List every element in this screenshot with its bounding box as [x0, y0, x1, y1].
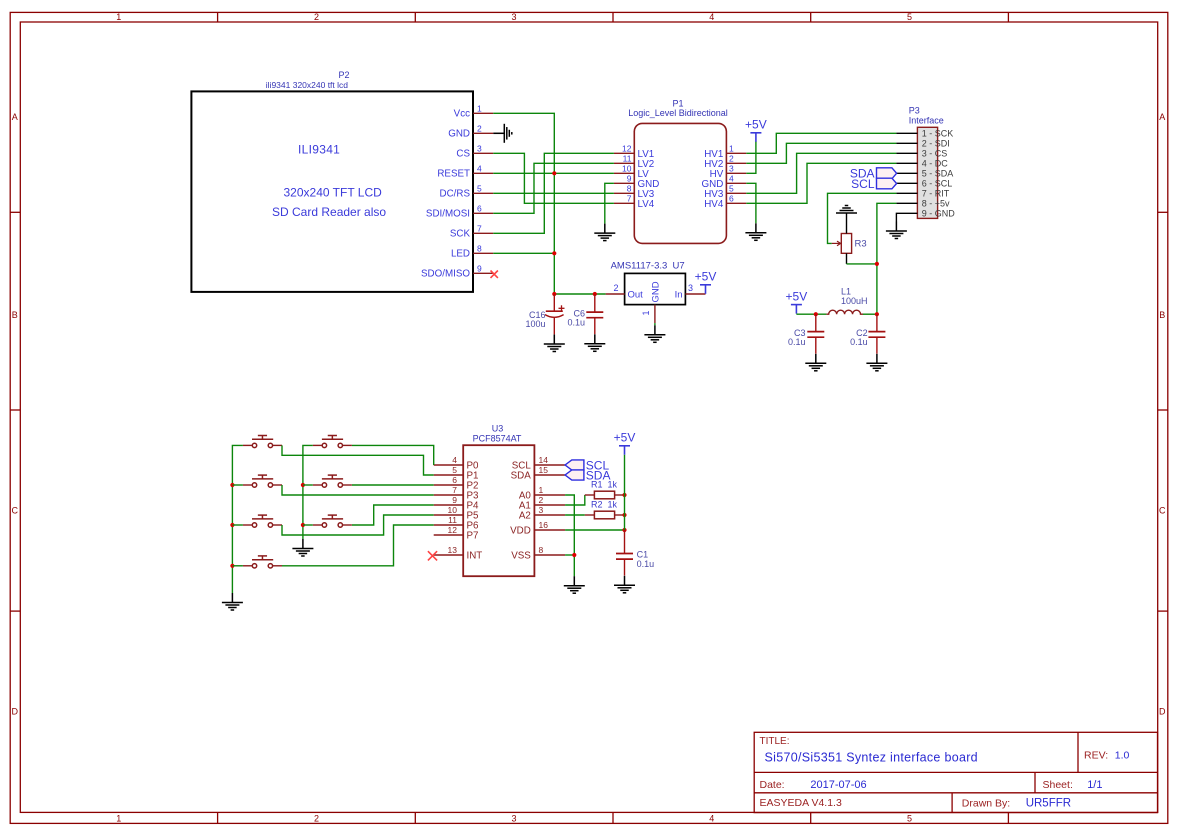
svg-text:INT: INT — [467, 551, 483, 562]
svg-text:0.1u: 0.1u — [637, 559, 655, 569]
svg-text:3: 3 — [729, 164, 734, 174]
pin 7 P3 of U3 — [434, 485, 479, 502]
svg-text:5: 5 — [729, 184, 734, 194]
junction at C6 — [593, 292, 597, 296]
svg-text:Logic_Level Bidirectional: Logic_Level Bidirectional — [628, 108, 728, 118]
svg-text:SCK: SCK — [450, 229, 471, 240]
pin 3 CS of P2 — [456, 144, 493, 160]
wire second button rail to ground — [303, 445, 313, 539]
svg-text:VDD: VDD — [510, 526, 531, 537]
ground below C6 — [584, 334, 605, 351]
wire R3 top lead — [846, 213, 848, 234]
trimmer resistor R3 — [832, 234, 852, 254]
svg-text:DC/RS: DC/RS — [440, 189, 471, 200]
svg-text:2: 2 — [314, 12, 319, 22]
wire 3.3V node to U7 Out — [554, 293, 605, 295]
svg-text:13: 13 — [448, 545, 458, 555]
ground below VSS — [564, 576, 585, 593]
push button SW2 — [313, 436, 352, 448]
svg-text:7: 7 — [452, 485, 457, 495]
svg-text:10: 10 — [448, 505, 458, 515]
svg-text:14: 14 — [539, 455, 549, 465]
label REV: — [1084, 750, 1130, 762]
svg-text:3: 3 — [477, 144, 482, 154]
wire rail2 to SW6 — [303, 524, 313, 526]
svg-text:D: D — [12, 707, 19, 717]
svg-text:1: 1 — [116, 814, 121, 824]
svg-text:C: C — [1159, 506, 1166, 516]
pin 10 P5 of U3 — [434, 505, 479, 522]
junction rail2 row2 — [301, 483, 305, 487]
ground below P1 left GND — [594, 224, 615, 241]
svg-text:U3: U3 — [492, 424, 504, 434]
svg-text:16: 16 — [539, 520, 549, 530]
ground below P1 right GND — [745, 223, 766, 240]
pin 11 P6 of U3 — [434, 515, 479, 532]
svg-text:ILI9341: ILI9341 — [298, 143, 340, 157]
svg-text:4: 4 — [477, 164, 482, 174]
svg-text:P1: P1 — [672, 98, 683, 108]
wire R2 left lead — [585, 514, 595, 516]
pin 9 GND of P1 — [614, 174, 659, 191]
wire rail2 to SW4 — [303, 484, 313, 486]
svg-text:2: 2 — [314, 814, 319, 824]
resistor R2 — [594, 511, 614, 519]
capacitor C2 — [868, 314, 885, 354]
wire HV to +5V — [746, 142, 756, 174]
svg-text:6: 6 — [477, 204, 482, 214]
net flag SDA at P3 — [850, 167, 897, 181]
wire CS to LV4 — [493, 153, 614, 203]
no-connect X on P2 pin 9 SDO/MISO — [491, 271, 498, 278]
wire HV2 to P3 pin2 SDI — [746, 143, 896, 163]
wire RESET to LV — [493, 172, 614, 174]
svg-text:Out: Out — [628, 289, 644, 300]
svg-text:3: 3 — [539, 505, 544, 515]
no-connect X on U3 INT pin — [428, 551, 437, 560]
pin 5 HV3 of P1 — [704, 184, 746, 201]
svg-text:2: 2 — [613, 283, 618, 293]
svg-text:100uH: 100uH — [841, 296, 868, 306]
svg-text:SCL: SCL — [851, 177, 875, 191]
wire HV1 to P3 pin1 SCK — [746, 133, 896, 153]
svg-text:R2 1k: R2 1k — [591, 499, 618, 509]
svg-text:+5V: +5V — [745, 118, 767, 132]
svg-text:9: 9 — [477, 264, 482, 274]
push button SW3 — [243, 475, 282, 487]
svg-text:1: 1 — [729, 144, 734, 154]
svg-text:9: 9 — [627, 174, 632, 184]
svg-text:1: 1 — [116, 12, 121, 22]
pin 1 GND of U7 — [641, 305, 655, 324]
svg-text:Drawn By:: Drawn By: — [962, 798, 1010, 810]
ground at P2 GND pin — [493, 124, 512, 143]
svg-text:EASYEDA V4.1.3: EASYEDA V4.1.3 — [760, 797, 842, 809]
pin 7 LV4 of P1 — [614, 194, 655, 211]
junction R2 to +5V rail — [622, 513, 626, 517]
svg-text:Vcc: Vcc — [454, 109, 470, 120]
wire SW6 to P4 pin — [352, 505, 434, 525]
wire L1 to +5v net — [863, 313, 877, 315]
wire A1 to R1 — [565, 495, 585, 505]
wire R1 left lead — [585, 494, 595, 496]
power +5V at P1 HV pin — [750, 133, 761, 142]
svg-text:1.0: 1.0 — [1115, 750, 1130, 762]
svg-text:11: 11 — [448, 515, 457, 525]
svg-text:2: 2 — [539, 495, 544, 505]
net flag SCL at U3 — [565, 458, 609, 472]
pin 7 7 - RIT of P3 — [896, 189, 949, 199]
push button SW5 — [243, 515, 282, 527]
svg-text:1/1: 1/1 — [1087, 779, 1102, 791]
wire VSS to ground rail — [565, 554, 574, 556]
svg-text:UR5FFR: UR5FFR — [1026, 798, 1071, 810]
svg-text:2017-07-06: 2017-07-06 — [810, 779, 866, 791]
svg-text:SDO/MISO: SDO/MISO — [421, 269, 470, 280]
wire P3 +5v pin to L1 node — [877, 203, 897, 314]
svg-text:0.1u: 0.1u — [567, 318, 585, 328]
power +5V above U3 — [619, 446, 630, 455]
wire SW2 to P0 pin — [352, 445, 434, 465]
wire R1 right lead — [615, 494, 624, 496]
svg-text:1: 1 — [641, 310, 651, 315]
wire R3 bottom to +5v net — [847, 263, 877, 265]
junction rail1 row4 — [230, 564, 234, 568]
wire rail1 to SW3 — [232, 484, 243, 486]
ground above R3 — [836, 206, 857, 214]
wire DC/RS to LV3 — [493, 192, 614, 194]
ground below button rail 2 — [292, 539, 313, 556]
pin 11 LV2 of P1 — [614, 154, 654, 171]
connector P3 Interface body — [917, 127, 937, 218]
pin 6 6 - SCL of P3 — [897, 179, 953, 189]
wire A0 to ground rail — [565, 495, 574, 576]
resistor R1 — [594, 491, 614, 499]
svg-text:9 - GND: 9 - GND — [922, 209, 956, 219]
svg-text:+5V: +5V — [614, 431, 636, 445]
junction L1 right node — [875, 312, 879, 316]
svg-text:2: 2 — [477, 124, 482, 134]
pin 5 DC/RS of P2 — [440, 184, 494, 200]
power +5V at L1 input — [791, 305, 802, 314]
pin 5 5 - SDA of P3 — [897, 169, 954, 179]
pin 4 P0 of U3 — [434, 455, 479, 472]
svg-text:100u: 100u — [525, 319, 545, 329]
svg-text:R1 1k: R1 1k — [591, 479, 618, 489]
junction rail2 row3 — [301, 523, 305, 527]
svg-text:A: A — [1159, 112, 1165, 122]
svg-text:6 - SCL: 6 - SCL — [922, 179, 953, 189]
wire SW4 to P2 pin — [352, 484, 434, 486]
wire P1 right GND to ground — [746, 183, 756, 223]
pin 4 GND of P1 — [702, 174, 747, 191]
svg-text:4 - DC: 4 - DC — [922, 159, 949, 169]
svg-text:Interface: Interface — [909, 115, 944, 125]
svg-text:CS: CS — [456, 149, 470, 160]
pin 12 LV1 of P1 — [614, 144, 654, 161]
svg-text:4: 4 — [709, 814, 714, 824]
net flag SDA at U3 — [565, 468, 610, 482]
svg-text:9: 9 — [452, 495, 457, 505]
pin 3 In of U7 — [675, 283, 706, 300]
svg-text:8: 8 — [477, 244, 482, 254]
pin 9 SDO/MISO of P2 — [421, 264, 493, 280]
pin 6 P2 of U3 — [434, 475, 479, 492]
svg-text:5 - SDA: 5 - SDA — [922, 169, 954, 179]
svg-text:PCF8574AT: PCF8574AT — [473, 434, 522, 444]
pin 8 LV3 of P1 — [614, 184, 655, 201]
wire LED to 3.3V rail — [493, 252, 554, 254]
pin 2 HV2 of P1 — [704, 154, 746, 171]
pin 1 A0 of U3 — [519, 485, 565, 502]
wire rail1 to SW5 — [232, 524, 243, 526]
pin 2 Out of U7 — [606, 283, 644, 300]
pin 4 4 - DC of P3 — [896, 159, 948, 169]
wire left button rail to ground — [232, 445, 243, 593]
connector P2 ili9341 LCD body — [191, 91, 473, 292]
svg-text:Sheet:: Sheet: — [1043, 779, 1073, 791]
svg-text:3 - CS: 3 - CS — [922, 149, 948, 159]
svg-text:12: 12 — [448, 525, 458, 535]
junction rail1 row3 — [230, 523, 234, 527]
junction VSS node — [572, 553, 576, 557]
push button SW4 — [313, 475, 352, 487]
pin 16 VDD of U3 — [510, 520, 565, 537]
svg-text:SDI/MOSI: SDI/MOSI — [426, 209, 470, 220]
svg-text:GND: GND — [651, 281, 662, 302]
svg-text:10: 10 — [622, 164, 632, 174]
svg-text:1: 1 — [539, 485, 544, 495]
svg-text:+5V: +5V — [786, 289, 808, 303]
svg-text:LV4: LV4 — [638, 199, 655, 210]
border row labels — [12, 112, 1167, 717]
svg-text:320x240 TFT LCD: 320x240 TFT LCD — [284, 186, 383, 200]
wire SCK to LV1 — [493, 153, 614, 233]
wire HV3 to P3 pin3 CS — [746, 153, 896, 193]
border row ticks left — [10, 212, 1168, 611]
svg-text:LED: LED — [451, 249, 470, 260]
pin 4 RESET of P2 — [437, 164, 493, 180]
svg-text:3: 3 — [688, 283, 693, 293]
push button SW7 — [243, 556, 282, 568]
wire VDD to +5V rail — [565, 529, 624, 531]
title block outline — [754, 732, 1157, 812]
svg-text:2: 2 — [729, 154, 734, 164]
capacitor C1 — [616, 530, 633, 576]
border column ticks top — [218, 12, 1009, 823]
svg-text:1 - SCK: 1 - SCK — [922, 129, 954, 139]
pin 1 Vcc of P2 — [454, 104, 494, 120]
pin 10 LV of P1 — [614, 164, 649, 181]
pin 8 8 - +5v of P3 — [896, 199, 950, 209]
svg-text:0.1u: 0.1u — [788, 337, 806, 347]
svg-text:1: 1 — [477, 104, 482, 114]
wire A2 to R2 — [565, 514, 585, 516]
svg-text:8 - +5v: 8 - +5v — [922, 199, 950, 209]
svg-text:3: 3 — [511, 814, 516, 824]
svg-text:12: 12 — [622, 144, 632, 154]
svg-text:B: B — [12, 310, 18, 320]
inductor L1 100uH — [826, 310, 863, 314]
svg-text:5: 5 — [907, 814, 912, 824]
svg-text:In: In — [675, 289, 683, 300]
ground below C1 — [614, 576, 635, 593]
svg-text:SDA: SDA — [511, 471, 532, 482]
svg-text:A2: A2 — [519, 511, 531, 522]
svg-text:11: 11 — [623, 154, 632, 164]
pin 9 9 - GND of P3 — [896, 209, 955, 222]
svg-text:L1: L1 — [841, 286, 851, 296]
svg-text:SD Card Reader also: SD Card Reader also — [272, 205, 386, 219]
svg-text:6: 6 — [729, 194, 734, 204]
svg-text:GND: GND — [448, 129, 470, 140]
svg-text:15: 15 — [539, 465, 549, 475]
capacitor C16 — [545, 294, 565, 334]
push button SW6 — [313, 515, 352, 527]
junction C3 node — [814, 312, 818, 316]
pin 14 SCL of U3 — [512, 455, 565, 472]
ground below C3 — [805, 354, 826, 371]
wire RIT to R3 wiper — [828, 193, 897, 243]
svg-text:TITLE:: TITLE: — [760, 736, 790, 747]
pin 5 P1 of U3 — [434, 465, 479, 482]
svg-text:4: 4 — [452, 455, 457, 465]
svg-text:D: D — [1159, 707, 1166, 717]
ic U3 PCF8574AT body — [463, 445, 534, 576]
svg-text:REV:: REV: — [1084, 750, 1108, 762]
svg-text:3: 3 — [511, 12, 516, 22]
wire R3 bottom lead — [846, 253, 848, 264]
svg-text:+5V: +5V — [695, 270, 717, 284]
wire +5V rail at U3 — [624, 455, 626, 530]
svg-text:6: 6 — [452, 475, 457, 485]
svg-text:7: 7 — [627, 194, 632, 204]
junction LED rail — [552, 251, 556, 255]
label Drawn By: — [962, 798, 1071, 810]
pin 6 SDI/MOSI of P2 — [426, 204, 493, 220]
pin 3 A2 of U3 — [519, 505, 565, 522]
pin 2 GND of P2 — [448, 124, 493, 140]
svg-text:A: A — [12, 112, 18, 122]
ground below U7 — [644, 325, 665, 342]
label Sheet: — [1043, 779, 1103, 791]
pin 2 2 - SDI of P3 — [896, 139, 949, 149]
pin 8 LED of P2 — [451, 244, 493, 260]
svg-text:AMS1117-3.3 U7: AMS1117-3.3 U7 — [611, 261, 685, 272]
svg-text:P2: P2 — [338, 70, 349, 80]
svg-text:7 - RIT: 7 - RIT — [922, 189, 950, 199]
wire SW5 to P5 pin — [282, 515, 434, 535]
pin 8 VSS of U3 — [511, 545, 565, 562]
pin 3 3 - CS of P3 — [896, 149, 947, 159]
wire SW1 to P1 pin — [282, 445, 434, 475]
svg-text:8: 8 — [539, 545, 544, 555]
net flag SCL at P3 — [851, 177, 896, 191]
pin 9 P4 of U3 — [434, 495, 479, 512]
junction R1 to +5V rail — [622, 493, 626, 497]
wire P1 GND left to ground — [605, 183, 614, 223]
module P1 Logic_Level Bidirectional body — [634, 123, 726, 243]
svg-text:ili9341 320x240 tft lcd: ili9341 320x240 tft lcd — [266, 80, 348, 90]
svg-text:5: 5 — [907, 12, 912, 22]
wire SW7 to P6 pin — [282, 525, 434, 566]
pin 1 HV1 of P1 — [704, 144, 746, 161]
svg-text:7: 7 — [477, 224, 482, 234]
pin 2 A1 of U3 — [519, 495, 565, 512]
power +5V at U7 In — [700, 285, 711, 294]
wire Vcc to 3.3V rail — [493, 113, 554, 294]
ground below C2 — [866, 354, 887, 371]
capacitor C3 — [807, 314, 824, 354]
pin 3 HV of P1 — [710, 164, 747, 181]
svg-text:B: B — [1159, 310, 1165, 320]
pin 12 P7 of U3 — [434, 525, 479, 542]
wire R2 right lead — [615, 514, 624, 516]
wire SDI/MOSI to LV2 — [493, 163, 614, 213]
ground below button rail 1 — [222, 593, 243, 610]
svg-text:8: 8 — [627, 184, 632, 194]
pin 15 SDA of U3 — [511, 465, 565, 482]
pin 13 INT of U3 — [434, 545, 483, 562]
regulator U7 AMS1117-3.3 body — [625, 273, 686, 304]
wire U7 pin1 stub — [654, 323, 656, 325]
pin 1 1 - SCK of P3 — [896, 129, 953, 139]
junction R3 bottom — [875, 262, 879, 266]
junction RESET/LV rail — [552, 171, 556, 175]
ground at P3 pin9 GND — [886, 222, 907, 239]
svg-text:Si570/Si5351 Syntez interface: Si570/Si5351 Syntez interface board — [765, 750, 978, 764]
svg-text:Date:: Date: — [760, 779, 785, 791]
svg-text:RESET: RESET — [437, 169, 470, 180]
svg-text:5: 5 — [452, 465, 457, 475]
wire +5V to L1 — [796, 313, 826, 315]
pin 6 HV4 of P1 — [704, 194, 746, 211]
capacitor C6 — [586, 294, 603, 334]
junction VDD node — [622, 528, 626, 532]
wire SW3 to P3 pin — [282, 485, 434, 495]
svg-text:4: 4 — [729, 174, 734, 184]
svg-text:VSS: VSS — [511, 551, 531, 562]
svg-text:P7: P7 — [467, 531, 479, 542]
svg-text:0.1u: 0.1u — [850, 337, 868, 347]
pin 7 SCK of P2 — [450, 224, 493, 240]
border column labels — [116, 12, 912, 823]
svg-text:4: 4 — [709, 12, 714, 22]
svg-text:5: 5 — [477, 184, 482, 194]
svg-text:P3: P3 — [909, 106, 920, 116]
junction rail1 row2 — [230, 483, 234, 487]
svg-text:R3: R3 — [855, 239, 867, 250]
svg-text:2 - SDI: 2 - SDI — [922, 139, 950, 149]
label Date: — [760, 779, 867, 791]
junction 3.3V rail at C16 — [552, 292, 556, 296]
svg-text:HV4: HV4 — [704, 199, 724, 210]
svg-text:C: C — [12, 506, 19, 516]
push button SW1 — [243, 436, 282, 448]
wire HV4 to P3 pin4 DC — [746, 163, 896, 203]
ground below C16 — [544, 335, 565, 352]
wire rail1 to SW7 — [232, 565, 243, 567]
